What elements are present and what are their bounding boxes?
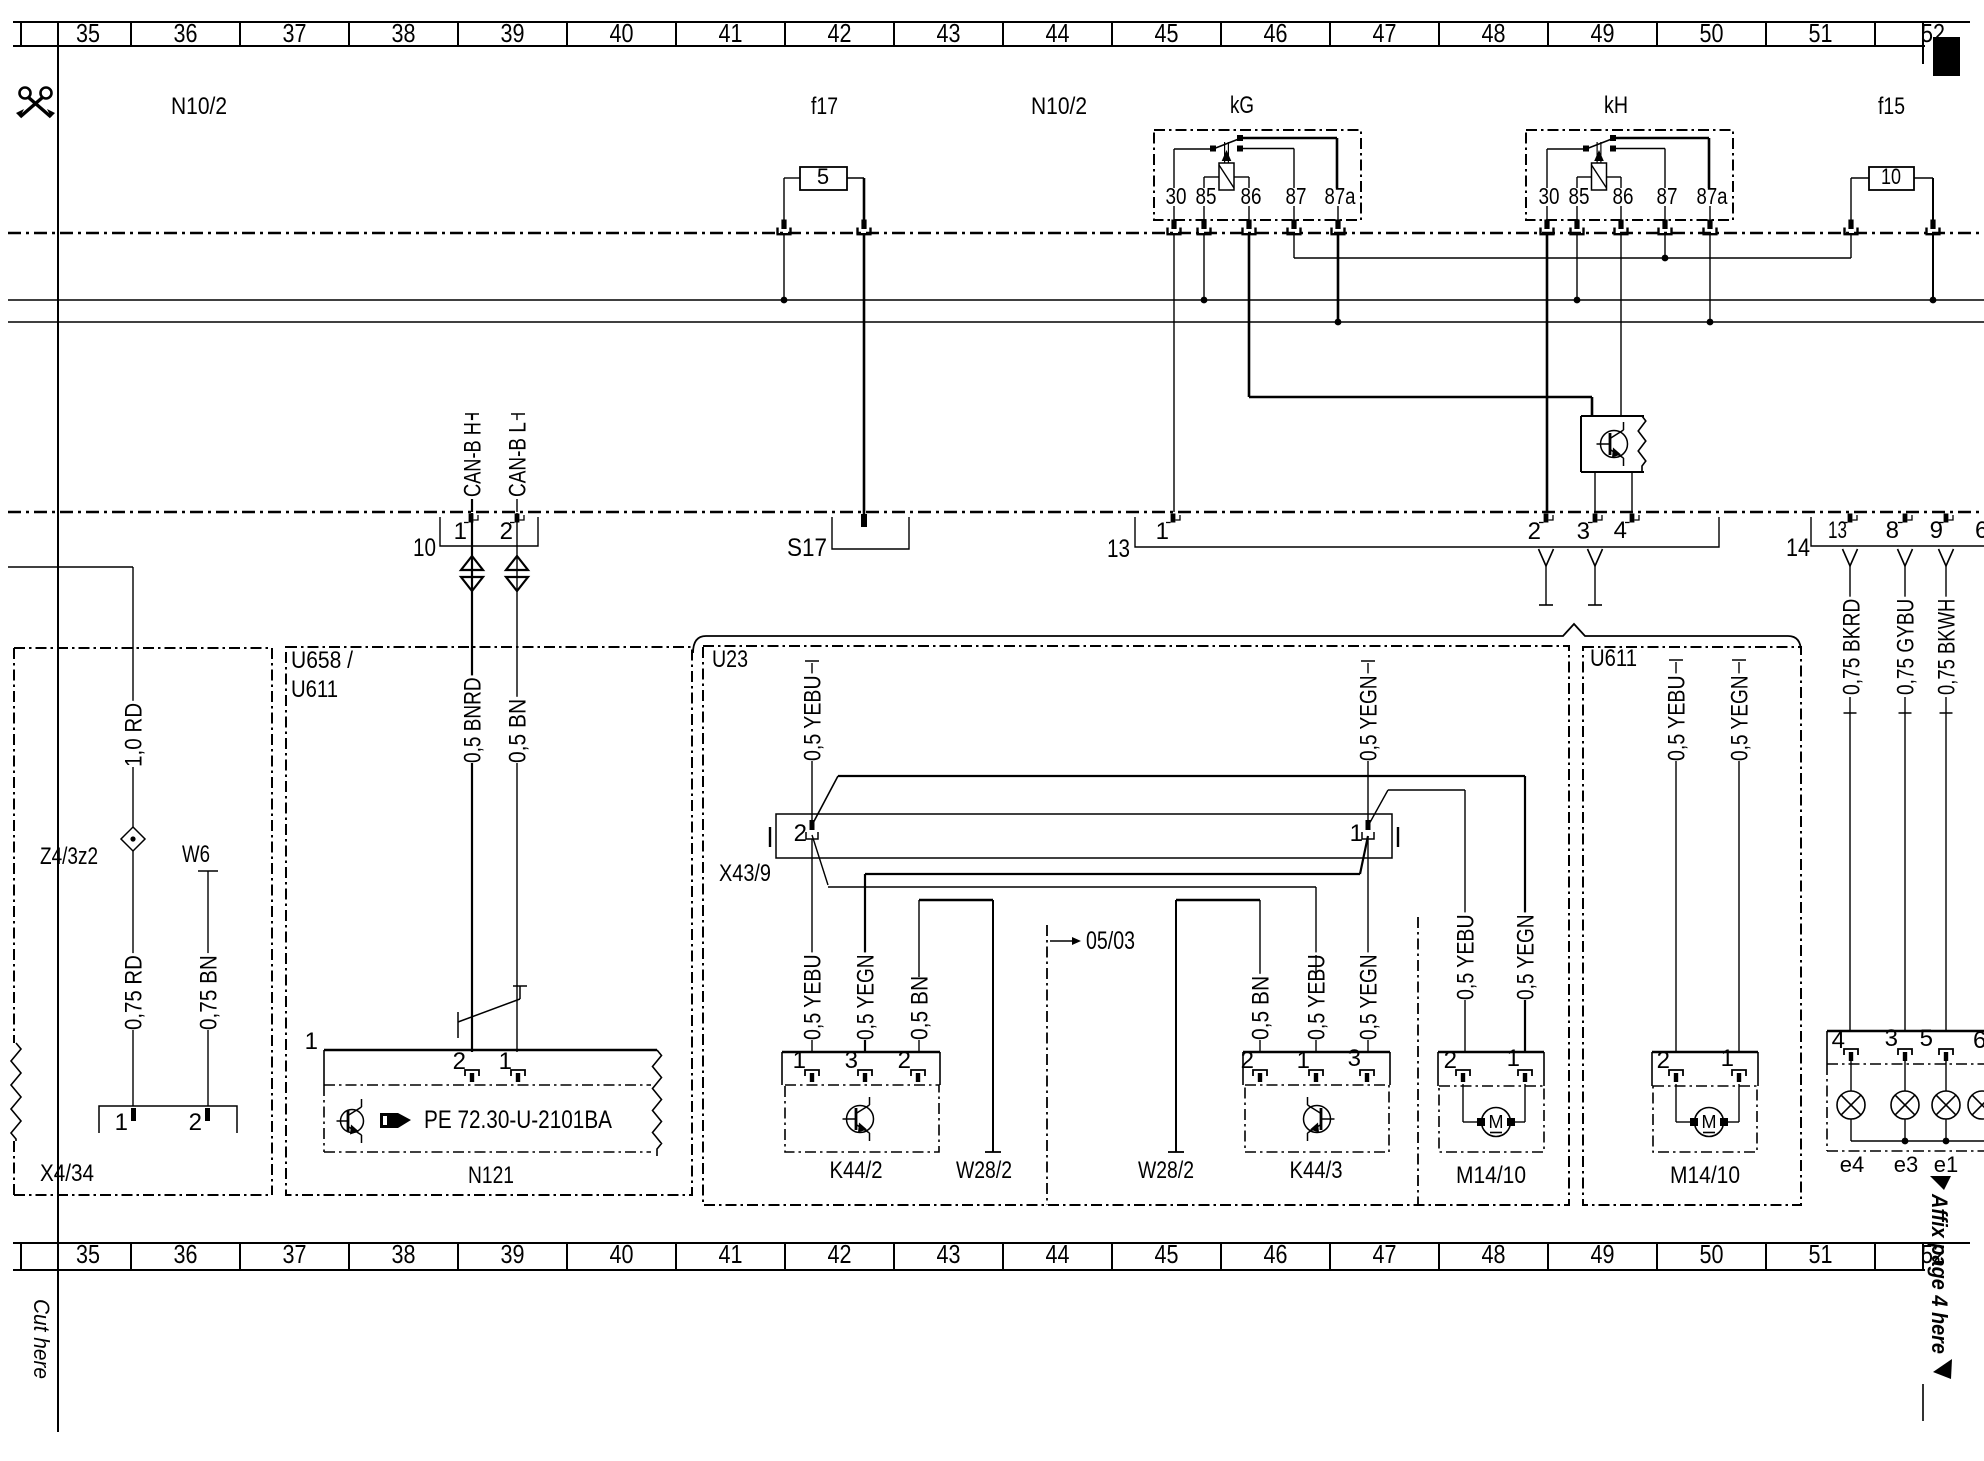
svg-text:30: 30 <box>1539 183 1560 209</box>
svg-text:13: 13 <box>1107 535 1130 563</box>
svg-text:39: 39 <box>501 18 525 48</box>
svg-text:49: 49 <box>1591 18 1615 48</box>
svg-text:1: 1 <box>793 1047 806 1074</box>
svg-text:2: 2 <box>500 518 513 545</box>
svg-text:0,75 BKRD: 0,75 BKRD <box>1839 599 1866 695</box>
svg-text:PE 72.30-U-2101BA: PE 72.30-U-2101BA <box>424 1106 612 1134</box>
svg-text:e1: e1 <box>1934 1152 1958 1177</box>
svg-text:87: 87 <box>1657 183 1678 209</box>
svg-text:49: 49 <box>1591 1239 1615 1269</box>
svg-text:45: 45 <box>1155 1239 1179 1269</box>
svg-text:U611: U611 <box>1590 645 1637 672</box>
svg-text:41: 41 <box>719 1239 743 1269</box>
svg-text:48: 48 <box>1482 1239 1506 1269</box>
svg-text:35: 35 <box>76 1239 100 1269</box>
svg-text:43: 43 <box>937 18 961 48</box>
svg-text:K44/3: K44/3 <box>1290 1157 1343 1184</box>
svg-text:1: 1 <box>1156 518 1169 545</box>
svg-text:W6: W6 <box>182 841 210 868</box>
svg-text:K44/2: K44/2 <box>830 1157 883 1184</box>
svg-text:4: 4 <box>1614 517 1627 544</box>
svg-text:50: 50 <box>1700 18 1724 48</box>
svg-text:0,75 GYBU: 0,75 GYBU <box>1893 599 1920 695</box>
svg-text:M14/10: M14/10 <box>1456 1162 1526 1189</box>
svg-text:40: 40 <box>610 1239 634 1269</box>
svg-text:0,5 BN: 0,5 BN <box>1248 976 1275 1040</box>
svg-text:5: 5 <box>1920 1025 1933 1052</box>
svg-text:Z4/3z2: Z4/3z2 <box>40 843 98 870</box>
svg-text:U23: U23 <box>712 646 748 673</box>
svg-text:0,5 YEBU: 0,5 YEBU <box>1453 914 1480 1000</box>
svg-text:85: 85 <box>1569 183 1590 209</box>
svg-text:X4/34: X4/34 <box>40 1160 94 1187</box>
svg-text:0,75 RD: 0,75 RD <box>121 955 148 1030</box>
svg-text:f15: f15 <box>1878 93 1905 120</box>
svg-text:30: 30 <box>1166 183 1187 209</box>
svg-text:e3: e3 <box>1894 1152 1918 1177</box>
svg-text:2: 2 <box>1241 1047 1254 1074</box>
svg-text:6: 6 <box>1973 1027 1984 1054</box>
svg-text:2: 2 <box>1444 1047 1457 1074</box>
svg-text:X43/9: X43/9 <box>719 860 771 887</box>
svg-text:0,75 BKWH: 0,75 BKWH <box>1934 599 1961 695</box>
svg-text:1: 1 <box>115 1109 128 1136</box>
svg-text:2: 2 <box>189 1109 202 1136</box>
svg-text:0,5 YEGN: 0,5 YEGN <box>1356 954 1383 1040</box>
svg-text:S17: S17 <box>787 534 827 562</box>
svg-text:2: 2 <box>794 820 807 847</box>
svg-text:46: 46 <box>1264 1239 1288 1269</box>
svg-text:42: 42 <box>828 1239 852 1269</box>
svg-text:W28/2: W28/2 <box>1138 1157 1194 1184</box>
svg-text:36: 36 <box>174 1239 198 1269</box>
svg-text:1: 1 <box>1721 1045 1734 1072</box>
svg-text:50: 50 <box>1700 1239 1724 1269</box>
svg-text:10: 10 <box>1881 164 1901 189</box>
svg-text:43: 43 <box>937 1239 961 1269</box>
svg-text:85: 85 <box>1196 183 1217 209</box>
svg-text:3: 3 <box>1577 518 1590 545</box>
svg-text:3: 3 <box>1885 1025 1898 1052</box>
svg-text:3: 3 <box>845 1047 858 1074</box>
svg-text:U611: U611 <box>291 676 338 703</box>
svg-text:M: M <box>1489 1112 1504 1132</box>
svg-text:35: 35 <box>76 18 100 48</box>
svg-text:1: 1 <box>305 1028 318 1055</box>
svg-text:44: 44 <box>1046 18 1070 48</box>
svg-text:1: 1 <box>1507 1045 1520 1072</box>
svg-text:9: 9 <box>1930 517 1943 544</box>
svg-text:1: 1 <box>454 518 467 545</box>
svg-text:0,5 YEBU: 0,5 YEBU <box>1304 954 1331 1040</box>
svg-text:10: 10 <box>413 534 436 562</box>
svg-text:5: 5 <box>817 164 829 189</box>
svg-text:M14/10: M14/10 <box>1670 1162 1740 1189</box>
svg-text:kG: kG <box>1230 92 1254 119</box>
svg-text:3: 3 <box>1348 1045 1361 1072</box>
svg-text:0,5 YEBU: 0,5 YEBU <box>800 675 827 761</box>
svg-text:51: 51 <box>1809 18 1833 48</box>
svg-text:U658 /: U658 / <box>291 647 353 674</box>
svg-text:87a: 87a <box>1325 183 1356 209</box>
svg-text:2: 2 <box>898 1047 911 1074</box>
svg-text:e4: e4 <box>1840 1152 1864 1177</box>
svg-text:47: 47 <box>1373 1239 1397 1269</box>
svg-text:CAN-B H: CAN-B H <box>460 422 487 497</box>
svg-text:M: M <box>1702 1112 1717 1132</box>
svg-text:0,5 BN: 0,5 BN <box>505 699 532 763</box>
svg-text:44: 44 <box>1046 1239 1070 1269</box>
svg-text:2: 2 <box>1528 518 1541 545</box>
svg-text:1: 1 <box>499 1048 512 1075</box>
svg-text:f17: f17 <box>811 93 838 120</box>
svg-text:87: 87 <box>1286 183 1307 209</box>
svg-text:kH: kH <box>1604 92 1628 119</box>
svg-text:8: 8 <box>1886 517 1899 544</box>
svg-text:N10/2: N10/2 <box>1031 93 1087 120</box>
svg-text:86: 86 <box>1613 183 1634 209</box>
svg-text:87a: 87a <box>1697 183 1728 209</box>
svg-text:14: 14 <box>1786 534 1810 562</box>
svg-text:6: 6 <box>1975 517 1984 544</box>
svg-text:W28/2: W28/2 <box>956 1157 1012 1184</box>
svg-text:0,5 YEGN: 0,5 YEGN <box>1356 675 1383 761</box>
svg-text:0,5 YEBU: 0,5 YEBU <box>1664 675 1691 761</box>
svg-text:39: 39 <box>501 1239 525 1269</box>
svg-text:36: 36 <box>174 18 198 48</box>
svg-text:0,5 YEGN: 0,5 YEGN <box>1727 675 1754 761</box>
svg-text:1: 1 <box>1350 820 1363 847</box>
svg-text:38: 38 <box>392 18 416 48</box>
svg-text:N121: N121 <box>468 1162 514 1189</box>
svg-text:0,5 BN: 0,5 BN <box>907 976 934 1040</box>
svg-text:Cut here: Cut here <box>29 1299 54 1379</box>
svg-text:0,5 YEBU: 0,5 YEBU <box>800 954 827 1040</box>
svg-text:05/03: 05/03 <box>1086 927 1135 955</box>
svg-text:1,0 RD: 1,0 RD <box>121 703 148 767</box>
svg-text:47: 47 <box>1373 18 1397 48</box>
svg-text:Affix page 4 here: Affix page 4 here <box>1927 1193 1952 1354</box>
svg-text:1: 1 <box>1297 1047 1310 1074</box>
svg-text:38: 38 <box>392 1239 416 1269</box>
svg-text:0,5 BNRD: 0,5 BNRD <box>460 677 487 763</box>
svg-text:CAN-B L: CAN-B L <box>505 422 532 497</box>
svg-text:0,5 YEGN: 0,5 YEGN <box>853 954 880 1040</box>
svg-text:40: 40 <box>610 18 634 48</box>
svg-text:42: 42 <box>828 18 852 48</box>
svg-text:0,75 BN: 0,75 BN <box>196 955 223 1030</box>
svg-text:51: 51 <box>1809 1239 1833 1269</box>
svg-text:37: 37 <box>283 1239 307 1269</box>
svg-text:0,5 YEGN: 0,5 YEGN <box>1513 914 1540 1000</box>
svg-text:2: 2 <box>453 1048 466 1075</box>
svg-text:48: 48 <box>1482 18 1506 48</box>
svg-text:4: 4 <box>1832 1027 1845 1054</box>
svg-text:45: 45 <box>1155 18 1179 48</box>
svg-text:13: 13 <box>1828 517 1847 544</box>
svg-text:46: 46 <box>1264 18 1288 48</box>
svg-text:N10/2: N10/2 <box>171 93 227 120</box>
svg-text:2: 2 <box>1657 1047 1670 1074</box>
svg-text:41: 41 <box>719 18 743 48</box>
svg-text:37: 37 <box>283 18 307 48</box>
svg-text:86: 86 <box>1241 183 1262 209</box>
